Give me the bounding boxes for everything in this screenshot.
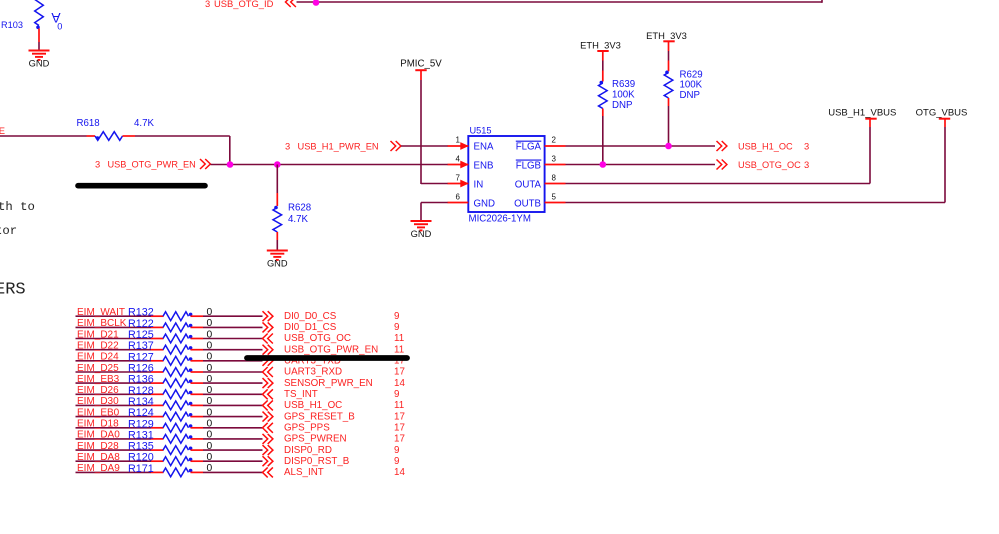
resistor R136 0 ohm (163, 379, 192, 388)
value 0 of R129 (207, 419, 213, 430)
refdes U515 (470, 126, 492, 136)
svg-text:ALS_INT: ALS_INT (284, 467, 324, 478)
svg-text:EIM_D25: EIM_D25 (77, 363, 119, 374)
label R129 (128, 418, 154, 430)
svg-text:1: 1 (456, 136, 461, 145)
pin number 5 (552, 193, 557, 202)
svg-text:DISP0_RD: DISP0_RD (284, 445, 332, 456)
resistor R103 (35, 0, 44, 29)
svg-text:R639: R639 (612, 79, 635, 90)
value 4.7K of R618 (134, 118, 154, 129)
wire EIM_EB0 net (row 10) (76, 416, 164, 418)
off-page connector chevron >> for GPS_RESET_B (263, 412, 273, 422)
wire EIM_EB3 net (row 7) (76, 382, 164, 384)
net label EIM_D28 (77, 441, 119, 452)
net label GPS_PWREN with page ref 17 (284, 434, 405, 445)
wire R639 to FLGB net (602, 109, 604, 165)
pin name IN (474, 180, 484, 191)
resistor R129 0 ohm (163, 423, 192, 432)
resistor R137 0 ohm (163, 345, 192, 354)
label R128 (128, 385, 154, 397)
net label USB_OTG_PWR_EN with page ref 3 (95, 159, 196, 170)
svg-text:ETH_3V3: ETH_3V3 (646, 30, 687, 41)
wire R125 to off-page connector (row 3) (191, 338, 263, 340)
wire R120 to off-page connector (row 14) (191, 460, 263, 462)
off-page connector chevron << for ALS_INT (263, 467, 273, 477)
svg-text:11: 11 (394, 344, 404, 355)
wire FLGB net (566, 164, 716, 166)
wire USB_OTG_PWR_EN to ENB pin (211, 164, 449, 166)
resistor R132 0 ohm (163, 312, 192, 321)
svg-text:4: 4 (456, 154, 461, 163)
pin 2 FLGA stub (545, 145, 566, 147)
wire junction to R628 (276, 165, 278, 207)
label R136 (128, 374, 154, 386)
label R134 (128, 396, 154, 408)
svg-text:11: 11 (394, 400, 404, 411)
net label EIM_D22 (77, 341, 119, 352)
pin number 3 (552, 154, 557, 163)
off-page connector chevron >> for DI0_D1_CS (263, 322, 273, 332)
wire PMIC_5V to IN pin (421, 183, 448, 185)
wire R135 to off-page connector (row 13) (191, 449, 263, 451)
off-page connector chevron >> for USB_H1_OC (717, 141, 727, 151)
svg-text:USB_OTG_PWR_EN: USB_OTG_PWR_EN (108, 160, 196, 170)
svg-text:4.7K: 4.7K (288, 214, 308, 225)
label R127 (128, 351, 154, 363)
label R120 (128, 452, 154, 464)
wire EIM_D28 net (row 13) (76, 449, 164, 451)
svg-text:ETH_3V3: ETH_3V3 (580, 39, 621, 50)
net label EIM_EB3 (77, 374, 120, 385)
svg-text:DNP: DNP (680, 90, 700, 101)
svg-text:DNP: DNP (612, 100, 632, 111)
power symbol USB_H1_VBUS (828, 108, 896, 119)
junction R639 on FLGB net (600, 161, 607, 168)
svg-text:GND: GND (474, 199, 496, 210)
net label USB_H1_PWR_EN with page ref 3 (285, 141, 379, 152)
pin number 4 (456, 154, 461, 163)
svg-text:EIM_D21: EIM_D21 (77, 329, 119, 340)
value 0 of R136 (207, 374, 213, 385)
svg-text:EIM_D30: EIM_D30 (77, 396, 119, 407)
wire from left edge to R618 (0, 135, 87, 137)
off-page connector chevron >> for SENSOR_PWR_EN (263, 378, 273, 388)
pin 1 ENA stub (448, 142, 469, 150)
wire PMIC_5V down (420, 70, 422, 184)
off-page connector chevron << for UART3_RXD (263, 367, 273, 377)
resistor R122 0 ohm (163, 323, 192, 332)
resistor R639 (599, 81, 608, 109)
svg-text:GPS_PWREN: GPS_PWREN (284, 434, 347, 445)
net label DI0_D1_CS with page ref 9 (284, 322, 399, 333)
svg-text:5: 5 (552, 193, 557, 202)
pin 7 IN stub (448, 180, 469, 188)
svg-text:100K: 100K (680, 80, 703, 91)
wire EIM_D21 net (row 3) (76, 338, 164, 340)
resistor R128 0 ohm (163, 390, 192, 399)
svg-text:USB_H1_OC: USB_H1_OC (284, 400, 342, 411)
wire EIM_D26 net (row 8) (76, 393, 164, 395)
off-page connector chevron << for TS_INT (263, 389, 273, 399)
label R131 (128, 429, 154, 441)
svg-text:EIM_BCLK: EIM_BCLK (77, 318, 127, 329)
svg-text:7: 7 (456, 173, 461, 182)
net label USB_OTG_ID with page ref 3 (205, 0, 274, 9)
net label EIM_EB0 (77, 407, 120, 418)
wire corner down to ENB net (229, 136, 231, 165)
value 0 of R127 (207, 352, 213, 363)
wire EIM_BCLK net (row 2) (76, 326, 164, 328)
svg-text:R125: R125 (128, 329, 154, 341)
off-page connector chevron >> for DI0_D0_CS (263, 311, 273, 321)
svg-text:100K: 100K (612, 89, 635, 100)
wire GND pin to ground (421, 203, 448, 221)
redaction bar over text (78, 183, 205, 189)
wire R629 to FLGA net (668, 98, 670, 146)
net label EIM_D30 (77, 396, 119, 407)
label R132 (128, 307, 154, 319)
svg-text:USB_OTG_OC: USB_OTG_OC (284, 333, 351, 344)
junction R629 on FLGA net (665, 143, 672, 150)
off-page connector chevron << for GPS_PPS (263, 423, 273, 433)
svg-text:U515: U515 (470, 126, 492, 136)
power symbol OTG_VBUS (916, 108, 968, 119)
svg-text:14: 14 (394, 467, 405, 478)
svg-text:EIM_DA9: EIM_DA9 (77, 463, 120, 474)
svg-text:8: 8 (552, 173, 557, 182)
svg-text:GPS_PPS: GPS_PPS (284, 423, 330, 434)
svg-text:ERS: ERS (0, 281, 26, 300)
svg-text:USB_OTG_OC: USB_OTG_OC (738, 160, 801, 170)
svg-text:USB_H1_PWR_EN: USB_H1_PWR_EN (298, 142, 379, 152)
svg-text:R120: R120 (128, 452, 154, 464)
value 100K of R639 (612, 89, 635, 100)
wire R122 to off-page connector (row 2) (191, 326, 263, 328)
off-page connector chevron >> for USB_H1_PWR_EN (391, 141, 401, 151)
svg-text:FLGA: FLGA (516, 142, 542, 153)
value 0 of R128 (207, 385, 213, 396)
label R122 (128, 318, 154, 330)
pin 8 OUTA stub (545, 183, 566, 185)
svg-text:9: 9 (394, 322, 399, 333)
junction on USB_OTG_ID wire (313, 0, 320, 6)
power symbol ETH_3V3 (R629) (646, 30, 687, 41)
label R629 (680, 69, 703, 80)
svg-text:EIM_D28: EIM_D28 (77, 441, 119, 452)
op U515 body (MIC2026-1YM power distribution switch) (468, 136, 544, 212)
label R126 (128, 363, 154, 375)
wire R128 to off-page connector (row 8) (191, 393, 263, 395)
svg-text:EIM_D26: EIM_D26 (77, 385, 119, 396)
net label EIM_DA0 (77, 430, 120, 441)
value 4.7K of R628 (288, 214, 308, 225)
net label TS_INT with page ref 9 (284, 389, 399, 400)
resistor R171 0 ohm (163, 468, 192, 477)
wire R618 to corner (135, 135, 230, 137)
svg-text:3: 3 (804, 141, 809, 152)
comment text fragment 'ERS' (0, 281, 26, 300)
value 100K of R629 (680, 80, 703, 91)
value 0 of R122 (207, 318, 213, 329)
svg-text:GND: GND (29, 59, 50, 69)
off-page connector chevron >> for DISP0_RST_B (263, 456, 273, 466)
svg-text:DISP0_RST_B: DISP0_RST_B (284, 456, 350, 467)
wire USB_OTG_ID horizontal top (297, 1, 823, 3)
wire R137 to off-page connector (row 4) (191, 349, 263, 351)
wire OUTB net (566, 119, 946, 203)
net label UART3_TXD with page ref 17 (284, 356, 405, 367)
wire R171 to off-page connector (row 15) (191, 471, 263, 473)
resistor R126 0 ohm (163, 368, 192, 377)
svg-text:OUTB: OUTB (514, 199, 541, 210)
value 0 of R171 (207, 463, 213, 474)
comment text fragment 'tor' (0, 224, 17, 238)
wire R129 to off-page connector (row 11) (191, 427, 263, 429)
pin name FLGA with overline (516, 141, 542, 152)
wire EIM_D24 net (row 5) (76, 360, 164, 362)
pin number 7 (456, 173, 461, 182)
svg-text:R127: R127 (128, 351, 154, 363)
pin number 6 (456, 193, 461, 202)
svg-text:tor: tor (0, 224, 17, 238)
off-page connector chevron >> for USB_OTG_PWR_EN (263, 345, 273, 355)
svg-text:IN: IN (474, 180, 484, 191)
svg-text:17: 17 (394, 434, 405, 445)
resistor R124 0 ohm (163, 412, 192, 421)
wire R131 to off-page connector (row 12) (191, 438, 263, 440)
net label USB_OTG_OC with page ref 11 (284, 333, 404, 344)
off-page connector chevron << for USB_OTG_ID (286, 0, 296, 7)
net label EIM_D18 (77, 419, 119, 430)
wire EIM_D25 net (row 6) (76, 371, 164, 373)
svg-text:R171: R171 (128, 463, 154, 475)
net label USB_H1_OC with page ref 3 (738, 141, 809, 152)
value 0 of R135 (207, 441, 213, 452)
net label USB_OTG_PWR_EN with page ref 11 (284, 344, 404, 355)
label R639 (612, 79, 635, 90)
off-page connector chevron << for USB_OTG_OC (263, 334, 273, 344)
svg-text:TS_INT: TS_INT (284, 389, 318, 400)
value 0 of R131 (207, 430, 213, 441)
resistor R135 0 ohm (163, 446, 192, 455)
pin 5 OUTB stub (545, 202, 566, 204)
net label USB_OTG_OC with page ref 3 (738, 159, 809, 170)
resistor R134 0 ohm (163, 401, 192, 410)
svg-text:0: 0 (57, 21, 62, 31)
svg-text:11: 11 (394, 333, 404, 344)
svg-text:3: 3 (205, 0, 210, 9)
svg-text:EIM_D18: EIM_D18 (77, 419, 119, 430)
wire EIM_DA8 net (row 14) (76, 460, 164, 462)
svg-text:EIM_D24: EIM_D24 (77, 352, 119, 363)
net label EIM_BCLK (77, 318, 127, 329)
ground symbol GND under R103 (29, 51, 50, 69)
net label EIM_WAIT (77, 307, 125, 318)
off-page connector chevron >> for GPS_PWREN (263, 434, 273, 444)
off-page connector chevron << for USB_H1_OC (263, 400, 273, 410)
label R124 (128, 407, 154, 419)
svg-text:DI0_D0_CS: DI0_D0_CS (284, 311, 337, 322)
svg-text:9: 9 (394, 311, 399, 322)
label R618 (77, 118, 100, 129)
svg-text:EIM_DA8: EIM_DA8 (77, 452, 120, 463)
net label GPS_RESET_B with page ref 17 (284, 411, 405, 422)
wire EIM_D18 net (row 11) (76, 427, 164, 429)
off-page connector chevron >> for UART3_TXD (263, 356, 273, 366)
net label DE (cut off at left edge) (0, 125, 5, 136)
pin 3 FLGB stub (545, 164, 566, 166)
resistor R618 (87, 132, 136, 141)
wire R132 to off-page connector (row 1) (191, 315, 263, 317)
value 0 of R132 (207, 307, 213, 318)
svg-text:9: 9 (394, 445, 399, 456)
resistor R127 0 ohm (163, 356, 192, 365)
svg-text:R132: R132 (128, 307, 154, 319)
value 0 of R126 (207, 363, 213, 374)
pin name ENB (474, 160, 494, 171)
wire R628 to ground (276, 232, 278, 250)
wire R136 to off-page connector (row 7) (191, 382, 263, 384)
power symbol ETH_3V3 (R639) (580, 39, 621, 51)
svg-text:FLGB: FLGB (516, 160, 541, 171)
svg-text:OTG_VBUS: OTG_VBUS (916, 108, 968, 119)
pin 6 GND stub (448, 202, 469, 204)
off-page connector chevron >> for USB_OTG_PWR_EN (200, 159, 210, 169)
svg-text:USB_H1_OC: USB_H1_OC (738, 142, 793, 152)
net label EIM_D21 (77, 329, 119, 340)
pin number 2 (552, 136, 557, 145)
resistor R131 0 ohm (163, 435, 192, 444)
junction at R618 branch (227, 161, 234, 168)
wire R124 to off-page connector (row 10) (191, 416, 263, 418)
wire EIM_D30 net (row 9) (76, 404, 164, 406)
wire ETH_3V3 to R629 (668, 41, 670, 71)
net label USB_H1_OC with page ref 11 (284, 400, 404, 411)
svg-text:4.7K: 4.7K (134, 118, 154, 129)
svg-text:DI0_D1_CS: DI0_D1_CS (284, 322, 337, 333)
label R171 (128, 463, 154, 475)
svg-text:EIM_EB0: EIM_EB0 (77, 407, 120, 418)
power symbol PMIC_5V (400, 59, 442, 71)
svg-text:ENB: ENB (474, 160, 494, 171)
off-page connector chevron >> for DISP0_RD (263, 445, 273, 455)
wire EIM_WAIT net (row 1) (76, 315, 164, 317)
net label SENSOR_PWR_EN with page ref 14 (284, 378, 405, 389)
wire EIM_DA0 net (row 12) (76, 438, 164, 440)
value 0 of R125 (207, 329, 213, 340)
svg-text:R136: R136 (128, 374, 154, 386)
svg-text:R628: R628 (288, 203, 311, 214)
wire OUTA net (566, 119, 871, 184)
net label EIM_D26 (77, 385, 119, 396)
svg-text:USB_H1_VBUS: USB_H1_VBUS (828, 108, 896, 119)
ground symbol GND at U515 pin 6 (411, 221, 432, 239)
resistor R628 (273, 206, 282, 232)
label R125 (128, 329, 154, 341)
label R103 (1, 20, 23, 30)
svg-text:MIC2026-1YM: MIC2026-1YM (469, 214, 531, 225)
svg-text:R103: R103 (1, 20, 23, 30)
wire R134 to off-page connector (row 9) (191, 404, 263, 406)
resistor R629 (664, 71, 673, 99)
svg-text:3: 3 (804, 159, 809, 170)
pin name ENA (474, 142, 494, 153)
svg-text:3: 3 (95, 159, 100, 170)
svg-text:2: 2 (552, 136, 557, 145)
net label EIM_DA8 (77, 452, 120, 463)
svg-text:17: 17 (394, 423, 405, 434)
pin name GND (474, 199, 496, 210)
pin name OUTB (514, 199, 541, 210)
note DNP of R629 (680, 90, 700, 101)
svg-text:EIM_D22: EIM_D22 (77, 341, 119, 352)
svg-text:R134: R134 (128, 396, 154, 408)
pin number 1 (456, 136, 461, 145)
wire R127 to off-page connector (row 5) (191, 360, 263, 362)
wire USB_H1_PWR_EN to ENA pin (401, 145, 448, 147)
svg-text:3: 3 (285, 141, 290, 152)
wire R126 to off-page connector (row 6) (191, 371, 263, 373)
ground symbol GND under R628 (267, 251, 288, 269)
svg-text:R629: R629 (680, 69, 703, 80)
wire FLGA net (566, 145, 716, 147)
svg-text:9: 9 (394, 456, 399, 467)
svg-text:9: 9 (394, 389, 399, 400)
part number MIC2026-1YM (469, 214, 531, 225)
note DNP of R639 (612, 100, 632, 111)
comment text fragment 'th to' (0, 200, 35, 214)
net label EIM_D25 (77, 363, 119, 374)
value 0 of R137 (207, 341, 213, 352)
wire R103 to ground (38, 29, 40, 50)
resistor R120 0 ohm (163, 457, 192, 466)
pin number 8 (552, 173, 557, 182)
svg-text:17: 17 (394, 367, 405, 378)
svg-text:SENSOR_PWR_EN: SENSOR_PWR_EN (284, 378, 373, 389)
svg-text:USB_OTG_ID: USB_OTG_ID (214, 0, 274, 9)
net label EIM_DA9 (77, 463, 120, 474)
svg-text:EIM_WAIT: EIM_WAIT (77, 307, 125, 318)
svg-text:GND: GND (411, 229, 432, 239)
svg-text:GND: GND (267, 259, 288, 269)
svg-text:th to: th to (0, 200, 35, 214)
wire EIM_D22 net (row 4) (76, 349, 164, 351)
svg-text:14: 14 (394, 378, 405, 389)
svg-text:USB_OTG_PWR_EN: USB_OTG_PWR_EN (284, 344, 378, 355)
pin 4 ENB stub (448, 161, 469, 169)
label R137 (128, 340, 154, 352)
svg-text:3: 3 (552, 154, 557, 163)
off-page connector chevron >> for USB_OTG_OC (717, 160, 727, 170)
svg-text:6: 6 (456, 193, 461, 202)
svg-text:17: 17 (394, 411, 405, 422)
wire ETH_3V3 to R639 (602, 51, 604, 82)
pin name OUTA (515, 180, 542, 191)
svg-text:OUTA: OUTA (515, 180, 542, 191)
svg-text:EIM_EB3: EIM_EB3 (77, 374, 120, 385)
svg-text:EIM_DA0: EIM_DA0 (77, 430, 120, 441)
label R135 (128, 441, 154, 453)
svg-text:UART3_RXD: UART3_RXD (284, 367, 342, 378)
svg-text:R618: R618 (77, 118, 100, 129)
wire USB_OTG_ID vertical to top edge (821, 0, 823, 3)
wire EIM_DA9 net (row 15) (76, 471, 164, 473)
label R628 (288, 203, 311, 214)
net label DI0_D0_CS with page ref 9 (284, 311, 399, 322)
svg-text:DE: DE (0, 125, 5, 136)
net label DISP0_RD with page ref 9 (284, 445, 399, 456)
